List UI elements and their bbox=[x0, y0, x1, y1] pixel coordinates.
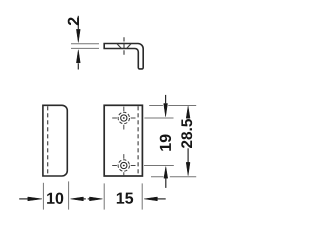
hole top: center mark bbox=[123, 117, 125, 119]
dim text 28.5 bbox=[181, 141, 192, 148]
hole centerline (top view) bbox=[123, 37, 125, 55]
extension line: bottom hole center bbox=[144, 165, 174, 167]
dim 10: right arrow tail bbox=[83, 198, 86, 200]
top view: angle profile outline bbox=[104, 44, 143, 69]
front view outline bbox=[104, 105, 142, 176]
hole bottom: center mark bbox=[123, 165, 125, 167]
dim 28.5: upper arrowhead bbox=[186, 106, 190, 118]
extension line: top hole center bbox=[144, 117, 173, 119]
countersink right slope line bbox=[127, 44, 131, 49]
extension line (thickness top) bbox=[71, 43, 99, 45]
dim 2: upper arrowhead bbox=[76, 29, 80, 42]
dim 28.5: line segment bbox=[187, 148, 189, 162]
extension line: side view left bbox=[42, 183, 44, 210]
front view hidden bend line (dashed) bbox=[137, 106, 139, 175]
hole bottom: countersink dashed circle bbox=[118, 160, 129, 171]
dim 19: upper arrowhead bbox=[164, 104, 168, 117]
dim 2: upper arrow tail bbox=[77, 16, 79, 29]
countersink left slope line bbox=[117, 44, 121, 49]
extension line: plate bottom edge bbox=[151, 176, 196, 178]
extension line: plate top edge bbox=[149, 105, 196, 107]
hole top: bore circle bbox=[121, 115, 127, 121]
hole bottom: centerline ticks bbox=[112, 154, 135, 175]
dim text 10 bbox=[47, 193, 54, 204]
dim 10: right arrowhead bbox=[71, 197, 84, 201]
dim 19: lower arrowhead bbox=[164, 167, 168, 179]
extension line (thickness bottom) bbox=[71, 47, 99, 49]
side view hidden edge (dashed) bbox=[47, 106, 49, 175]
extension line: front view left bbox=[103, 183, 105, 209]
hole top: centerline ticks bbox=[112, 107, 135, 130]
extension line: front view right bbox=[141, 183, 143, 209]
dim text 19 bbox=[160, 143, 171, 150]
extension line: side view right bbox=[68, 181, 70, 209]
dim 19: lower arrow tail bbox=[165, 178, 167, 188]
dim 2: lower arrow tail bbox=[77, 63, 79, 69]
dim 19: upper arrow tail bbox=[165, 95, 167, 103]
dim 28.5: lower arrowhead bbox=[186, 162, 190, 175]
dim 15: left arrow tail bbox=[88, 198, 90, 200]
dim text 2 bbox=[68, 17, 79, 25]
dim 10: left arrowhead bbox=[28, 197, 42, 201]
dim 15: right arrowhead bbox=[144, 197, 157, 201]
dim 2: lower arrowhead bbox=[76, 50, 80, 63]
dim 10: left arrow tail bbox=[19, 198, 27, 200]
dim 15: left arrowhead bbox=[90, 197, 103, 201]
side view outline bbox=[43, 105, 67, 176]
dim 15: right arrow tail bbox=[157, 198, 166, 200]
hole top: countersink dashed circle bbox=[118, 112, 129, 123]
hole bottom: bore circle bbox=[121, 162, 127, 168]
dim text 15 bbox=[117, 193, 124, 204]
